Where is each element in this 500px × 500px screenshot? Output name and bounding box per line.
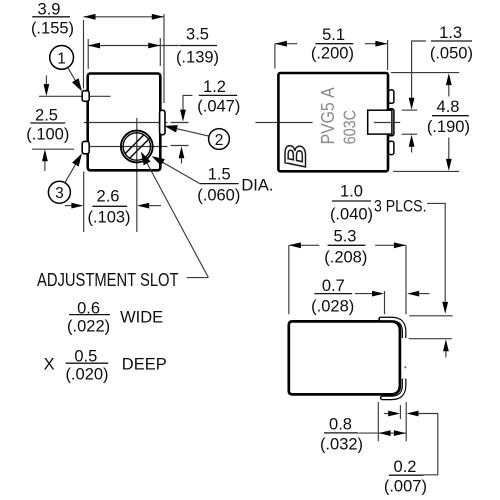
svg-text:(.200): (.200) (311, 45, 354, 63)
dimension 5.3 (.208) (289, 228, 406, 315)
svg-text:B: B (280, 145, 313, 168)
SECTION: top view (view 1) (26, 1, 273, 384)
svg-text:(.020): (.020) (65, 366, 108, 384)
dimension 0.7 (.028) (311, 277, 429, 316)
dimension 2.5 (.100) (26, 76, 74, 172)
vertical centerline through screw (136, 118, 138, 232)
callout circle 3 (48, 153, 82, 203)
screw slot edge upper (125, 135, 144, 154)
svg-text:3.5: 3.5 (186, 26, 209, 44)
svg-text:5.3: 5.3 (334, 228, 357, 246)
svg-text:(.028): (.028) (311, 298, 354, 316)
dimension 1.0 (.040) 3 PLCS. with leader (330, 182, 453, 357)
centerline through pin 2 (84, 122, 189, 124)
svg-text:(.047): (.047) (197, 98, 240, 116)
dimension 2.6 (.103) (65, 172, 161, 233)
body outline (side view) (289, 321, 400, 394)
svg-text:(.100): (.100) (26, 126, 69, 144)
dimension 1.5 (.060) DIA. (152, 156, 274, 204)
svg-text:DEEP: DEEP (122, 355, 167, 373)
top J-lead (381, 319, 405, 338)
svg-text:X: X (44, 356, 55, 374)
body outline (top view) (88, 74, 161, 171)
dimension 1.3 (.050) (402, 24, 473, 153)
svg-text:(.103): (.103) (87, 209, 130, 227)
svg-text:2.6: 2.6 (97, 188, 120, 206)
screw outer circle (121, 131, 153, 163)
SECTION: side view (view 3) (289, 228, 438, 496)
dimension 4.8 (.190) (391, 73, 470, 172)
svg-text:2.5: 2.5 (35, 107, 58, 125)
top pin (front view) (389, 90, 394, 103)
svg-text:(.032): (.032) (320, 436, 363, 454)
svg-text:5.1: 5.1 (322, 26, 345, 44)
centerline through wiper (front view, left part) (256, 122, 313, 124)
pin 2 tab (160, 110, 165, 134)
dimension 1.2 (.047) (179, 78, 241, 164)
callout circle 2 (164, 125, 229, 149)
dimension 5.1 (.200) (275, 26, 388, 70)
svg-text:0.7: 0.7 (322, 277, 345, 295)
svg-text:(.208): (.208) (324, 249, 367, 267)
middle pin (front view) (389, 109, 394, 136)
label X 0.5 (.020) DEEP (44, 348, 167, 384)
dimension 3.9 (.155) (31, 1, 164, 104)
svg-text:4.8: 4.8 (437, 98, 460, 116)
svg-text:1.0: 1.0 (340, 182, 363, 200)
svg-text:(.022): (.022) (67, 318, 110, 336)
svg-text:3 PLCS.: 3 PLCS. (374, 197, 427, 215)
svg-text:0.8: 0.8 (329, 416, 352, 434)
centerline through screw and pin 3 (84, 146, 189, 147)
dimension 0.8 (.032) (320, 402, 406, 454)
svg-text:WIDE: WIDE (120, 308, 163, 326)
wiper contact box (368, 110, 392, 134)
screw inner circle (123, 133, 150, 160)
svg-text:603C: 603C (340, 110, 360, 145)
svg-text:3.9: 3.9 (38, 1, 61, 19)
dimension 0.2 (.007) (384, 405, 438, 495)
svg-text:(.060): (.060) (197, 187, 240, 205)
svg-text:3: 3 (55, 185, 64, 202)
svg-text:(.190): (.190) (427, 118, 470, 136)
svg-text:(.007): (.007) (384, 478, 427, 496)
svg-text:(.040): (.040) (330, 206, 373, 224)
svg-text:1: 1 (57, 50, 66, 67)
screw center cross (132, 142, 141, 151)
svg-text:1.2: 1.2 (203, 78, 226, 96)
svg-text:DIA.: DIA. (241, 177, 273, 195)
pin 3 tab (82, 141, 89, 153)
centerline through wiper (front view, right part) (374, 122, 400, 124)
svg-text:2: 2 (215, 132, 224, 149)
SECTION: front view (view 2) (256, 24, 473, 358)
callout circle 1 (50, 46, 82, 92)
svg-text:(.050): (.050) (430, 45, 473, 63)
pin 1 tab (82, 91, 89, 102)
dimension 3.5 (.139) (88, 26, 219, 70)
svg-text:ADJUSTMENT SLOT: ADJUSTMENT SLOT (37, 269, 179, 290)
svg-text:(.155): (.155) (31, 20, 74, 38)
label ADJUSTMENT SLOT with leader (37, 152, 208, 291)
svg-text:(.139): (.139) (176, 49, 219, 67)
centerline through pin 1 (39, 95, 111, 97)
stray tick on lead (404, 366, 406, 368)
bottom J-lead (382, 379, 404, 398)
svg-text:1.3: 1.3 (439, 24, 462, 42)
svg-text:PVG5 A: PVG5 A (317, 87, 338, 145)
svg-text:1.5: 1.5 (208, 165, 231, 183)
svg-text:0.2: 0.2 (394, 458, 417, 476)
label 0.6 (.022) WIDE (67, 299, 163, 335)
screw slot edge lower (130, 137, 151, 158)
body outline (front view) (278, 73, 388, 171)
bottom pin (front view) (389, 141, 394, 154)
